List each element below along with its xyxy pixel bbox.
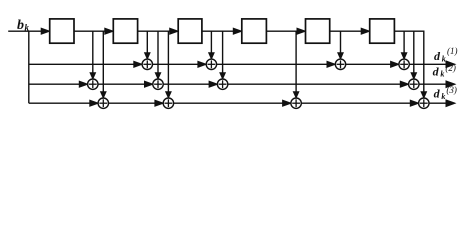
wire: tap D1 out to XOR L2 [90, 31, 95, 78]
wire: tap D3 out to XOR L1 [209, 31, 214, 58]
wire: tap D3 out to XOR L2 [220, 31, 225, 78]
xor adder X3 on line 1 (x=340.5) [335, 59, 345, 69]
xor adder X2 on line 1 (x=211.4) [206, 59, 216, 69]
wire: D5 to D6 [329, 29, 369, 34]
xor adder X1 on line 1 (x=147.3) [142, 59, 152, 69]
svg-text:(3): (3) [446, 85, 457, 95]
register D3 (shift-register stage) [178, 19, 202, 43]
register D4 (shift-register stage) [242, 19, 267, 43]
xor adder X12 on line 3 (x=423.8) [419, 98, 429, 108]
wire: D3 to D4 [201, 29, 241, 34]
xor adder X6 on line 2 (x=158.0) [153, 79, 163, 89]
wire: tap D2 out to XOR L3 [166, 31, 171, 97]
wire: D1 to D2 [73, 29, 112, 34]
register D2 (shift-register stage) [113, 19, 137, 43]
wire: D4 to D5 [266, 29, 305, 34]
svg-text:(1): (1) [447, 46, 458, 56]
register D1 (shift-register stage) [50, 19, 74, 43]
wire: tap D4 out to XOR L3 [294, 31, 299, 97]
wire: tap D6 out to XOR L2 [411, 31, 416, 78]
xor adder X8 on line 2 (x=413.8) [409, 79, 419, 89]
output label d_k^(2) [433, 63, 456, 79]
wire: D6 output to XOR L3 (corner) [394, 31, 426, 97]
wire: output line 1 (y=64.3) [29, 61, 455, 67]
register D6 (shift-register stage) [370, 19, 395, 43]
output label d_k^(3) [434, 85, 457, 101]
svg-text:(2): (2) [445, 63, 456, 73]
wire: tap D5 out to XOR L1 [338, 31, 343, 58]
svg-text:d: d [434, 49, 441, 63]
node: input tap vertical (b_k to all three lines) [28, 31, 30, 103]
svg-text:b: b [17, 18, 24, 33]
wire: output line 2 (y=84.2) [29, 81, 455, 87]
svg-text:k: k [25, 23, 30, 33]
xor adder X4 on line 1 (x=404.1) [399, 59, 409, 69]
svg-text:k: k [440, 70, 444, 79]
output label d_k^(1) [434, 46, 458, 64]
xor adder X10 on line 3 (x=168.4) [163, 98, 173, 108]
input label b_k [17, 18, 30, 33]
svg-text:d: d [433, 64, 440, 78]
svg-text:d: d [434, 87, 441, 101]
wire: tap D2 out to XOR L1 [145, 31, 150, 58]
xor adder X7 on line 2 (x=222.6) [217, 79, 227, 89]
xor adder X11 on line 3 (x=296.1) [291, 98, 301, 108]
wire: b_k input to register D1 [8, 29, 49, 34]
wire: tap D6 out to XOR L1 [402, 31, 407, 58]
svg-text:k: k [441, 92, 445, 101]
wire: output line 3 (y=103.2) [29, 100, 455, 106]
xor adder X9 on line 3 (x=103.3) [98, 98, 108, 108]
register D5 (shift-register stage) [306, 19, 330, 43]
wire: tap D1 out to XOR L3 [101, 31, 106, 97]
wire: tap D2 out to XOR L2 [156, 31, 161, 78]
wire: D2 to D3 [137, 29, 178, 34]
xor adder X5 on line 2 (x=92.8) [88, 79, 98, 89]
